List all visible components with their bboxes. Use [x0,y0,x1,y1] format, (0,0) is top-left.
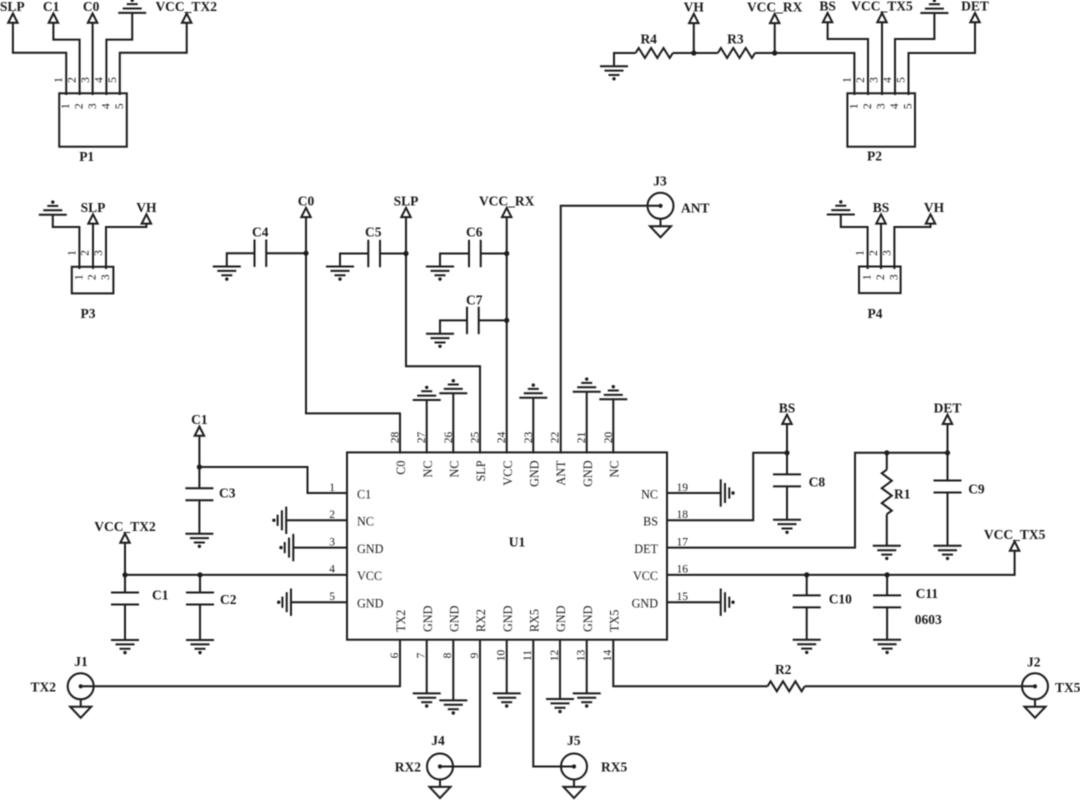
node C0 [303,251,308,256]
svg-text:DET: DET [961,0,989,14]
wire [198,436,200,489]
ground [573,377,601,391]
wire [92,224,94,269]
wire [947,493,949,546]
svg-text:P1: P1 [79,149,94,164]
svg-text:ANT: ANT [681,201,710,216]
svg-text:VCC_TX5: VCC_TX5 [851,0,913,14]
wire [227,253,255,266]
node C1 [197,464,202,469]
wire [13,23,66,95]
svg-text:4: 4 [889,103,901,109]
svg-text:4: 4 [100,103,112,109]
connector P2 [847,93,915,146]
svg-text:1: 1 [862,274,874,280]
svg-text:25: 25 [470,432,482,444]
svg-text:TX5: TX5 [1055,680,1080,695]
wire [886,575,888,596]
ground [277,589,291,616]
wire [106,224,146,269]
connector J4 [427,754,453,799]
svg-text:VCC_TX2: VCC_TX2 [155,0,217,14]
svg-text:5: 5 [114,103,126,109]
svg-text:2: 2 [862,103,874,109]
svg-text:C5: C5 [365,225,382,240]
svg-text:VCC_TX5: VCC_TX5 [984,527,1046,542]
wire [947,424,949,453]
wire [894,224,930,269]
ground [827,200,855,214]
ground [873,546,901,560]
svg-text:BS: BS [779,400,796,415]
ground [413,693,441,707]
svg-text:C0: C0 [83,0,100,14]
svg-text:P2: P2 [867,149,882,164]
svg-text:2: 2 [67,77,79,83]
wire [886,607,888,639]
ground [413,386,441,400]
svg-text:NC: NC [357,515,374,529]
svg-text:3: 3 [881,250,893,256]
svg-text:VH: VH [924,200,945,215]
wire [786,486,788,519]
svg-text:NC: NC [641,487,658,501]
svg-text:GND: GND [581,460,595,487]
svg-text:VCC_RX: VCC_RX [747,0,803,15]
node VH [691,50,696,55]
svg-text:SLP: SLP [81,200,106,215]
capacitor C4 [255,240,267,267]
svg-text:C6: C6 [466,225,483,240]
svg-text:U1: U1 [509,535,526,550]
svg-text:2: 2 [87,274,99,280]
wire [481,253,507,255]
P1 pin numbers [53,77,126,109]
wire [828,22,868,95]
wire [506,217,508,453]
capacitor C10 [793,595,821,607]
wire [673,52,718,54]
power port C1 [191,412,208,436]
wire [895,13,934,95]
svg-text:C9: C9 [968,482,985,497]
svg-text:VCC: VCC [633,569,658,583]
svg-text:RX5: RX5 [601,760,627,775]
ground [873,640,901,654]
power port SLP [394,194,419,218]
svg-text:RX5: RX5 [528,609,542,632]
wire [199,605,201,641]
svg-text:R3: R3 [727,32,744,47]
P4 pin numbers [855,250,901,280]
resistor R3 [718,48,755,58]
svg-text:SLP: SLP [0,0,25,14]
IC U1 [347,452,667,639]
power port DET [934,400,962,424]
capacitor C1 [111,593,139,605]
ground [426,267,454,281]
power port VCC_RX [479,194,535,218]
svg-text:3: 3 [876,103,888,109]
power port SLP [81,200,106,224]
wire [125,574,348,576]
connector P3 [72,267,114,294]
svg-text:GND: GND [357,542,384,556]
svg-text:NC: NC [608,461,622,478]
wire [81,641,400,687]
ground [426,334,454,348]
svg-text:1: 1 [60,103,72,109]
wire [124,543,126,593]
svg-text:J2: J2 [1027,655,1041,670]
svg-text:SLP: SLP [394,194,419,209]
connector P1 [59,93,127,146]
capacitor C2 [186,593,214,605]
power port BS [873,200,890,224]
svg-text:VH: VH [684,0,705,15]
wire [53,23,79,95]
svg-text:GND: GND [528,460,542,487]
svg-text:3: 3 [87,103,99,109]
svg-text:J1: J1 [74,654,88,669]
svg-text:VH: VH [136,200,157,215]
ground [721,589,735,616]
wire [380,253,406,255]
node VCC_TX2 [122,572,127,577]
resistor R4 [636,48,673,58]
svg-text:GND: GND [448,605,462,632]
node VCC_RX [772,50,777,55]
svg-text:R4: R4 [640,32,657,47]
wire [786,424,788,453]
wire [666,492,721,494]
svg-text:3: 3 [869,77,881,83]
power port VH [136,200,157,224]
node DET2 [945,450,950,455]
svg-text:P4: P4 [868,306,883,321]
svg-text:NC: NC [448,461,462,478]
wire [124,605,126,641]
capacitor C5 [368,240,380,267]
wire [666,453,787,521]
ground [39,200,67,214]
svg-text:2: 2 [875,274,887,280]
ground [573,693,601,707]
ground [326,267,354,281]
P3 pin numbers [66,250,112,280]
svg-text:1: 1 [841,77,853,83]
wire [805,685,1035,687]
power port VH [684,0,705,23]
capacitor C9 [934,481,962,493]
svg-text:P3: P3 [81,306,96,321]
svg-text:C1: C1 [191,412,208,427]
wire [841,215,868,270]
wire [881,22,883,95]
svg-text:TX2: TX2 [30,680,56,695]
wire [406,217,480,453]
ground [439,379,467,393]
power port C0 [298,194,315,218]
svg-text:VCC_RX: VCC_RX [479,194,535,209]
svg-text:J5: J5 [567,733,581,748]
power port BS [819,0,836,22]
wire [266,252,306,254]
wire [440,254,469,267]
wire [198,500,200,533]
capacitor C6 [469,240,481,267]
svg-text:TX2: TX2 [394,610,408,632]
capacitor C3 [185,488,213,500]
svg-text:SLP: SLP [474,460,488,481]
svg-text:24: 24 [496,432,508,444]
wire [612,399,614,453]
ground [439,700,467,714]
svg-text:R1: R1 [894,487,911,502]
wire [293,547,348,549]
wire [666,551,1015,575]
svg-text:1: 1 [53,77,65,83]
svg-text:C0: C0 [298,194,315,209]
wire [909,22,976,95]
node VCC_TX5 [804,572,809,577]
wire [291,601,348,603]
power port VH [924,200,945,224]
power port C0 [83,0,100,23]
wire [479,319,507,321]
power port C1 [43,0,60,23]
power port VCC_TX2 [94,519,156,543]
wire [340,254,368,267]
resistor R2 [768,681,805,691]
svg-text:ANT: ANT [554,460,568,486]
U1 pin numbers [389,432,615,662]
wire [440,320,467,333]
ground [519,383,547,397]
svg-text:4: 4 [93,77,105,83]
ground [599,385,627,399]
ground [920,0,948,13]
wire [452,393,454,453]
svg-text:3: 3 [93,250,105,256]
svg-text:DET: DET [934,400,962,415]
svg-text:C4: C4 [252,225,269,240]
junction [197,572,202,577]
svg-text:C3: C3 [219,486,236,501]
svg-text:C1: C1 [43,0,60,14]
power port VCC_TX5 [851,0,913,22]
svg-text:GND: GND [632,597,659,611]
svg-text:3: 3 [888,274,900,280]
ground [279,534,293,561]
power port VCC_RX [747,0,803,23]
svg-text:TX5: TX5 [608,610,622,632]
svg-text:GND: GND [357,597,384,611]
power port VCC_TX5 [984,527,1046,551]
wire [947,453,949,481]
svg-text:C2: C2 [220,592,237,607]
svg-text:J4: J4 [431,733,445,748]
svg-text:GND: GND [581,605,595,632]
svg-text:5: 5 [107,77,119,83]
wire [426,641,428,694]
ground [185,534,213,548]
wire [786,453,788,475]
svg-text:1: 1 [73,274,85,280]
svg-text:RX2: RX2 [474,609,488,632]
ground [118,0,146,13]
wire [426,400,428,454]
svg-text:C8: C8 [809,475,826,490]
wire [120,23,187,95]
svg-text:5: 5 [896,77,908,83]
node DET [884,450,889,455]
svg-text:C1: C1 [357,487,371,501]
svg-text:1: 1 [855,250,867,256]
wire [106,13,132,95]
ground [493,693,521,707]
svg-text:RX2: RX2 [395,760,421,775]
wire [452,641,454,701]
wire [886,453,888,470]
capacitor C8 [773,474,801,486]
connector J2 [1022,673,1048,718]
P2 pin numbers [841,77,914,109]
wire [666,453,948,548]
node VCC_TX5b [885,572,890,577]
power port BS [779,400,796,424]
ground [213,267,241,281]
wire [533,641,574,767]
svg-text:GND: GND [554,605,568,632]
svg-text:NC: NC [421,461,435,478]
wire [561,206,661,454]
svg-text:C1: C1 [152,588,169,603]
svg-text:VCC_TX2: VCC_TX2 [94,519,156,534]
wire [199,467,348,493]
svg-text:J3: J3 [653,174,667,189]
svg-text:R2: R2 [775,662,792,677]
wire [506,641,508,694]
svg-text:2: 2 [80,250,92,256]
svg-text:0603: 0603 [915,612,942,627]
svg-text:3: 3 [100,274,112,280]
ground [793,640,821,654]
power port VCC_TX2 [155,0,217,23]
node C7 [504,318,509,323]
svg-text:C10: C10 [829,592,852,607]
wire [199,575,201,593]
svg-text:1: 1 [848,103,860,109]
ground [546,699,574,713]
capacitor C11 [873,595,901,607]
ground [721,479,735,506]
node VCC_RX [504,251,509,256]
svg-text:4: 4 [882,77,894,83]
wire [532,398,534,454]
svg-text:C11: C11 [916,586,939,601]
svg-text:1: 1 [66,250,78,256]
wire [440,641,480,767]
svg-text:28: 28 [390,432,402,444]
wire [886,514,888,546]
wire [53,215,80,269]
wire [614,53,636,66]
wire [586,392,588,454]
svg-text:GND: GND [501,605,515,632]
wire [613,641,767,687]
wire [92,23,94,95]
capacitor C7 [467,307,479,334]
connector P4 [859,267,901,294]
ground [272,507,286,534]
svg-text:5: 5 [903,103,915,109]
wire [806,575,808,596]
svg-text:C0: C0 [394,461,408,475]
ground [934,546,962,560]
wire [693,23,695,53]
ground [186,640,214,654]
connector J3 [648,193,674,238]
svg-text:GND: GND [421,605,435,632]
connector J5 [561,754,587,799]
svg-text:BS: BS [643,515,658,529]
svg-text:BS: BS [873,200,890,215]
wire [559,641,561,700]
ground [600,66,628,80]
U1 pin names [329,460,688,632]
svg-text:C7: C7 [466,293,483,308]
power port DET [961,0,989,22]
wire [306,217,400,453]
resistor R1 [882,470,892,515]
wire [774,23,776,53]
node SLP [403,251,408,256]
svg-text:22: 22 [550,432,562,444]
svg-text:3: 3 [80,77,92,83]
wire [286,519,348,521]
svg-text:DET: DET [634,542,658,556]
svg-text:2: 2 [855,77,867,83]
power port SLP [0,0,25,23]
wire [666,601,721,603]
wire [755,53,854,95]
wire [880,224,882,269]
svg-text:2: 2 [74,103,86,109]
svg-text:2: 2 [868,250,880,256]
connector J1 [68,673,94,718]
ground [111,640,139,654]
wire [806,607,808,639]
wire [586,641,588,694]
node BS [784,450,789,455]
svg-text:VCC: VCC [357,569,382,583]
svg-text:BS: BS [819,0,836,14]
svg-text:VCC: VCC [501,461,515,486]
ground [773,520,801,534]
